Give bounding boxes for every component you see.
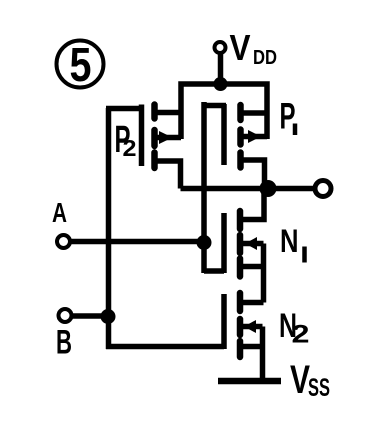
svg-text:5: 5: [70, 39, 92, 92]
svg-text:DD: DD: [253, 47, 277, 69]
wire VDD stem: [218, 53, 224, 84]
junction dot output: [260, 180, 277, 197]
svg-text:N: N: [280, 223, 299, 259]
transistor P1 bulk stub: [244, 134, 268, 140]
transistor N2 channel ticks: [237, 293, 244, 357]
svg-text:SS: SS: [308, 374, 330, 402]
wire input gate net B: vertical, top arm to P2 gate, bottom run to N2 gate: [106, 108, 224, 349]
wire VDD top rail with left and right drops: [181, 84, 267, 139]
transistor N2 gate bar: [221, 294, 227, 349]
wire output rail: [181, 186, 314, 192]
transistor P2 gate bar: [139, 105, 145, 167]
transistor P1 drain stub and drop to output node: [244, 160, 265, 189]
svg-text:B: B: [56, 324, 72, 362]
transistor N2 bulk stub: [243, 324, 263, 330]
transistor P1 source stub: [244, 110, 268, 116]
transistor N1 drain stub and riser to output node: [243, 189, 264, 220]
junction dot VDD rail: [214, 77, 228, 91]
svg-text:2: 2: [292, 321, 310, 349]
terminal VDD: [215, 42, 226, 53]
transistor P2 drain stub and drop to output rail: [157, 161, 181, 189]
VSS bar: [218, 378, 281, 385]
wire N2 bulk-source tie down to VSS: [260, 327, 266, 382]
transistor N2 bulk arrow: [244, 320, 256, 333]
junction dot A: [197, 235, 212, 250]
terminal B: [59, 309, 72, 322]
transistor P2 bulk arrow: [159, 131, 173, 144]
terminal A: [57, 235, 70, 248]
transistor P1 gate bar: [221, 104, 227, 165]
transistor N1 source stub: [243, 264, 264, 270]
transistor P2 bulk stub: [157, 135, 181, 141]
transistor N2 drain stub: [243, 300, 264, 306]
terminal output: [315, 181, 331, 197]
transistor P1 bulk arrow: [248, 130, 261, 143]
svg-text:A: A: [52, 197, 67, 228]
transistor N2 source stub: [243, 344, 263, 350]
transistor P2 source stub: [157, 110, 181, 116]
wire input B horizontal: [72, 313, 108, 319]
transistor N1 gate bar: [221, 213, 227, 273]
junction dot B: [101, 309, 116, 324]
wire input A horizontal: [70, 239, 204, 245]
figure number 5 circle: [57, 41, 104, 88]
transistor P2 channel ticks: [151, 105, 158, 169]
transistor N1 channel ticks: [237, 211, 244, 277]
transistor N1 bulk arrow: [245, 237, 257, 250]
transistor N1 bulk stub: [243, 241, 264, 247]
wire N1 bulk-source tie down to N2 drain: [261, 244, 267, 303]
svg-text:2: 2: [123, 135, 137, 161]
wire input gate net A: top arm, vertical, bottom arm: [204, 102, 226, 273]
transistor P1 channel ticks: [237, 105, 244, 168]
svg-text:V: V: [230, 27, 251, 68]
